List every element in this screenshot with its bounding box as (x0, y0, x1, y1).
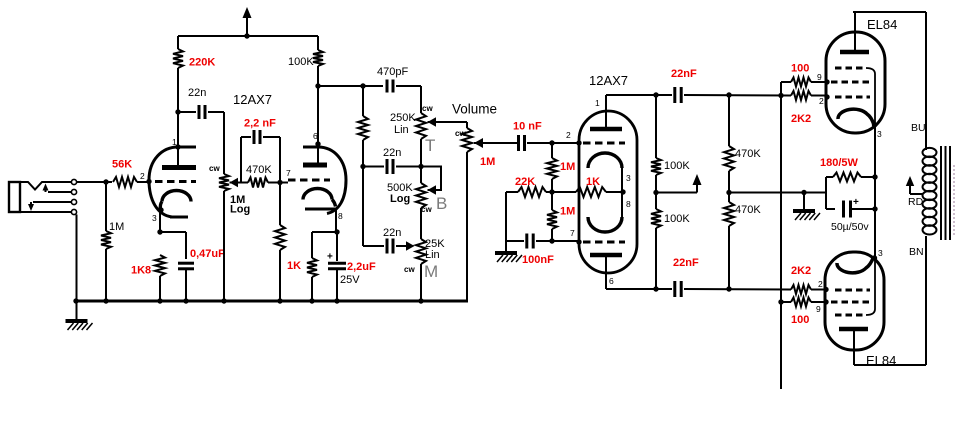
svg-text:50µ/50v: 50µ/50v (831, 221, 869, 233)
svg-text:25V: 25V (340, 274, 360, 286)
svg-text:2,2 nF: 2,2 nF (244, 118, 276, 130)
svg-text:250K: 250K (390, 112, 416, 124)
svg-text:0,47uF: 0,47uF (190, 248, 225, 260)
svg-text:470K: 470K (246, 164, 272, 176)
svg-text:8: 8 (626, 199, 631, 209)
svg-text:1M: 1M (480, 156, 495, 168)
svg-text:1: 1 (595, 98, 600, 108)
svg-text:3: 3 (877, 129, 882, 139)
svg-text:+: + (327, 252, 333, 263)
svg-text:cw: cw (422, 104, 433, 113)
svg-text:2: 2 (566, 130, 571, 140)
svg-text:7: 7 (570, 228, 575, 238)
svg-text:100K: 100K (664, 160, 690, 172)
svg-text:9: 9 (816, 304, 821, 314)
svg-text:3: 3 (626, 173, 631, 183)
svg-text:EL84: EL84 (867, 17, 897, 32)
svg-text:M: M (424, 262, 438, 281)
svg-text:2K2: 2K2 (791, 265, 811, 277)
svg-text:100: 100 (791, 314, 809, 326)
svg-text:56K: 56K (112, 159, 132, 171)
svg-text:1: 1 (172, 137, 177, 147)
svg-text:3: 3 (152, 213, 157, 223)
svg-text:cw: cw (455, 129, 466, 138)
svg-text:RD: RD (908, 196, 924, 208)
svg-text:22nF: 22nF (673, 257, 699, 269)
svg-text:Lin: Lin (394, 124, 409, 136)
svg-text:10 nF: 10 nF (513, 121, 542, 133)
svg-text:12AX7: 12AX7 (233, 92, 272, 107)
svg-text:220K: 220K (189, 57, 215, 69)
svg-text:2: 2 (140, 171, 145, 181)
svg-text:2: 2 (818, 279, 823, 289)
svg-text:100: 100 (791, 63, 809, 75)
svg-text:1K8: 1K8 (131, 265, 151, 277)
svg-text:2,2uF: 2,2uF (347, 261, 376, 273)
svg-text:+: + (853, 197, 859, 208)
svg-text:22n: 22n (188, 87, 206, 99)
svg-text:Volume: Volume (452, 102, 497, 117)
svg-text:8: 8 (338, 211, 343, 221)
svg-text:2: 2 (819, 96, 824, 106)
svg-text:470K: 470K (735, 148, 761, 160)
svg-text:22nF: 22nF (671, 68, 697, 80)
svg-text:Log: Log (230, 204, 250, 216)
svg-text:Log: Log (390, 193, 410, 205)
svg-text:22K: 22K (515, 176, 535, 188)
svg-text:6: 6 (313, 131, 318, 141)
svg-text:7: 7 (286, 168, 291, 178)
svg-text:B: B (436, 194, 447, 213)
svg-text:T: T (425, 136, 435, 155)
svg-text:1M: 1M (560, 161, 575, 173)
svg-text:cw: cw (421, 205, 432, 214)
svg-text:470pF: 470pF (377, 66, 408, 78)
svg-text:cw: cw (404, 265, 415, 274)
svg-text:BU: BU (911, 122, 926, 134)
svg-text:cw: cw (209, 164, 220, 173)
svg-text:1M: 1M (560, 206, 575, 218)
svg-text:3: 3 (878, 248, 883, 258)
svg-text:100K: 100K (664, 213, 690, 225)
svg-text:22n: 22n (383, 147, 401, 159)
svg-text:BN: BN (909, 246, 924, 258)
svg-text:1K: 1K (586, 176, 600, 188)
svg-text:1K: 1K (287, 260, 301, 272)
svg-text:9: 9 (817, 72, 822, 82)
svg-text:1M: 1M (109, 221, 124, 233)
svg-text:22n: 22n (383, 227, 401, 239)
svg-text:Lin: Lin (425, 249, 440, 261)
svg-text:180/5W: 180/5W (820, 157, 859, 169)
svg-text:100nF: 100nF (522, 254, 554, 266)
svg-text:470K: 470K (735, 204, 761, 216)
svg-text:12AX7: 12AX7 (589, 73, 628, 88)
svg-text:100K: 100K (288, 56, 314, 68)
svg-text:2K2: 2K2 (791, 113, 811, 125)
svg-text:6: 6 (609, 276, 614, 286)
